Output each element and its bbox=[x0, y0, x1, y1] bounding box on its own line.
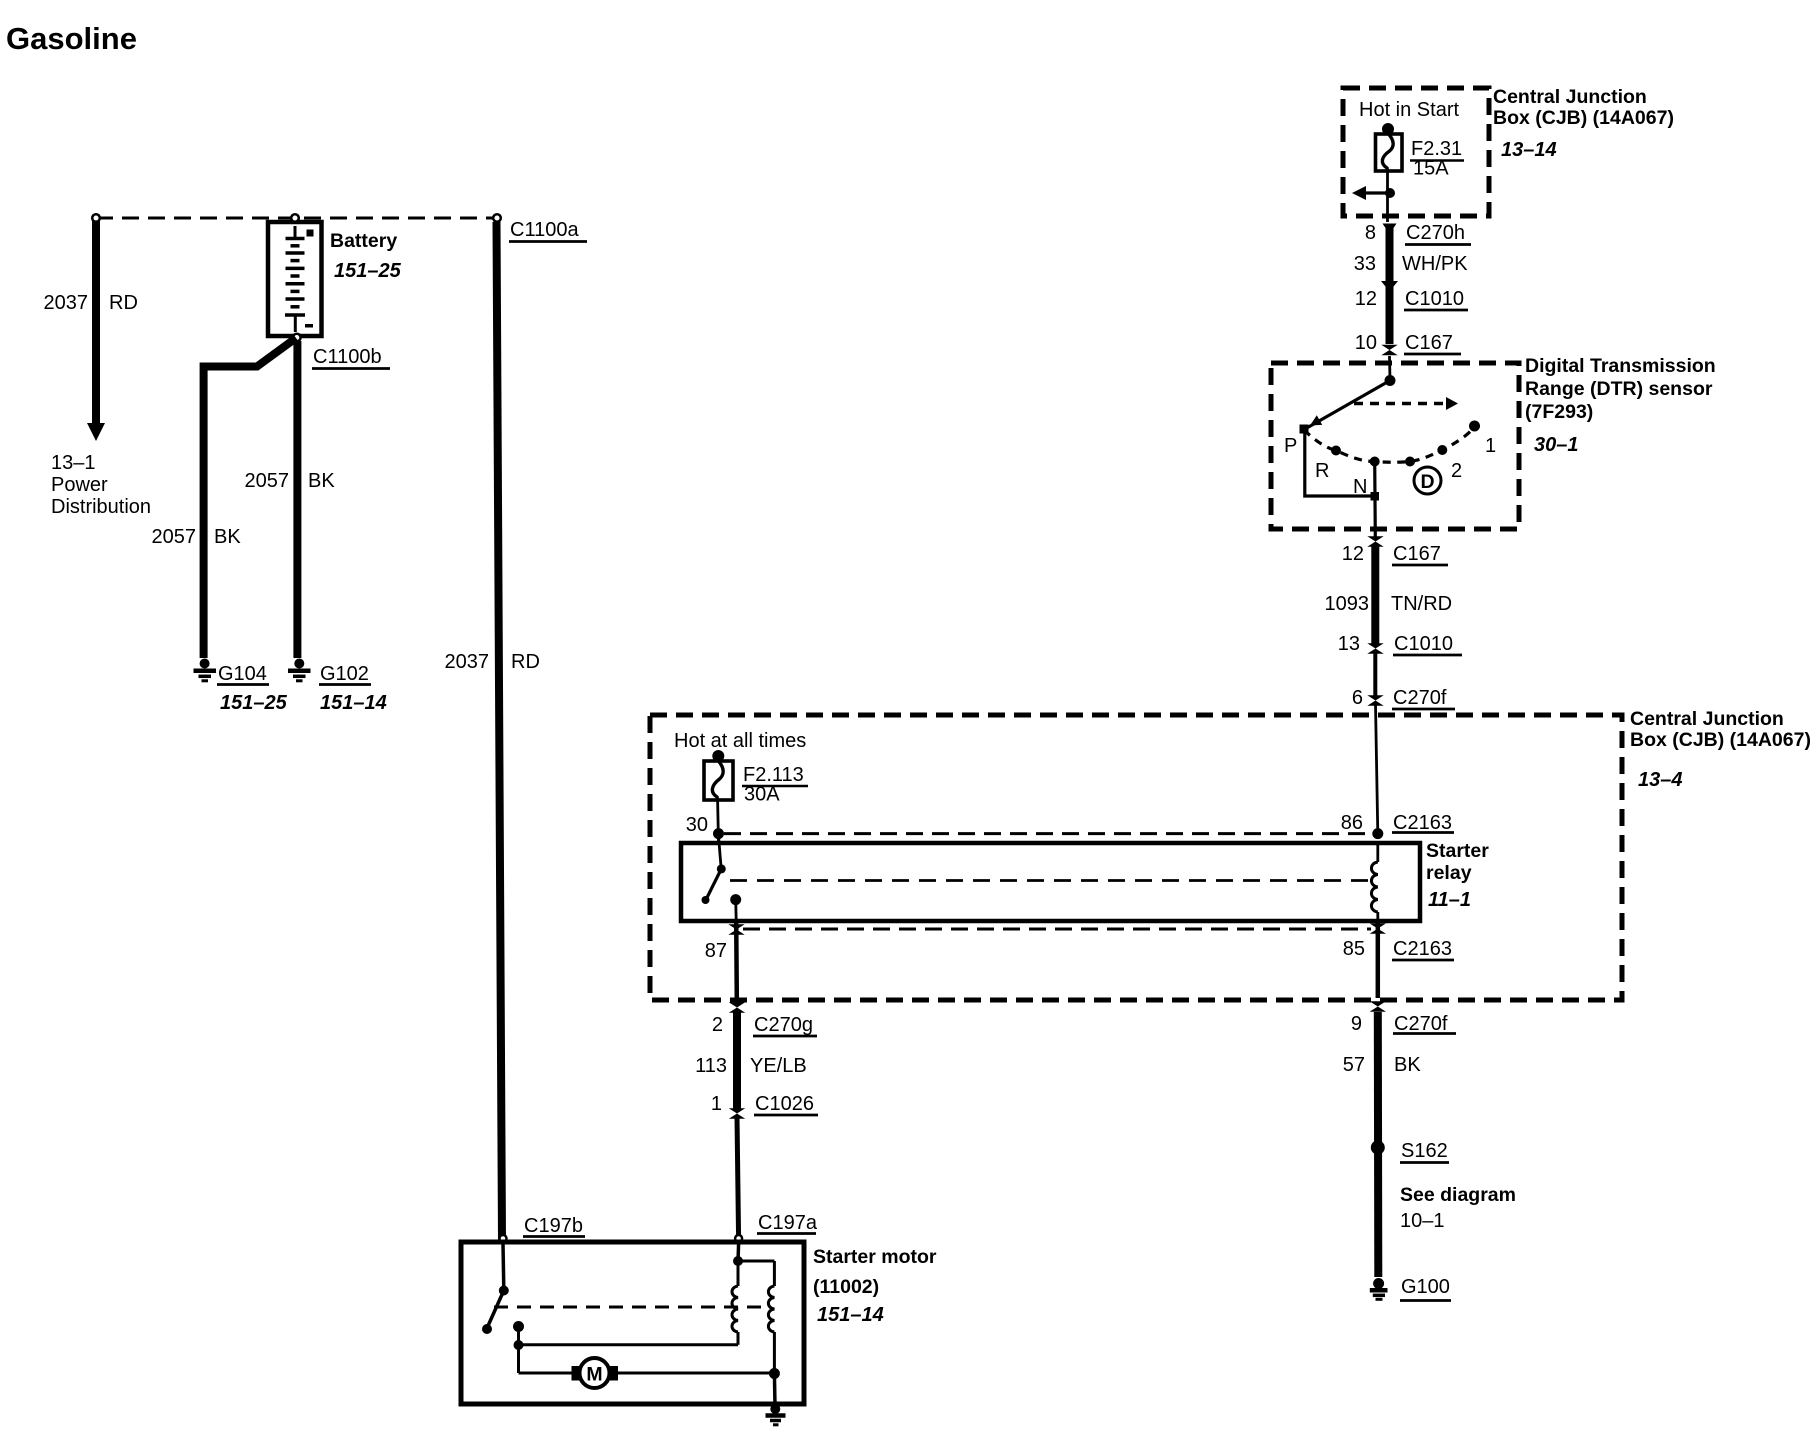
svg-text:33: 33 bbox=[1354, 253, 1376, 275]
ground G100 bbox=[1373, 1278, 1384, 1289]
svg-text:R: R bbox=[1315, 460, 1329, 482]
svg-text:See diagram: See diagram bbox=[1400, 1184, 1516, 1206]
node C197b circle bbox=[500, 1235, 507, 1242]
svg-text:relay: relay bbox=[1426, 862, 1472, 884]
ground G104 bbox=[200, 659, 210, 669]
svg-text:30–1: 30–1 bbox=[1534, 434, 1579, 456]
pin 13 connector C1010 bowtie bbox=[1367, 643, 1383, 653]
svg-text:Central Junction: Central Junction bbox=[1493, 86, 1647, 108]
box starter motor bbox=[461, 1242, 804, 1404]
node circle left bbox=[92, 214, 100, 222]
svg-text:Box (CJB) (14A067): Box (CJB) (14A067) bbox=[1493, 107, 1674, 129]
battery bbox=[268, 222, 322, 336]
wire relay 85 down bbox=[1376, 921, 1381, 998]
box Central Junction Box 13-4 dashed bbox=[650, 715, 1622, 1000]
svg-text:13: 13 bbox=[1338, 633, 1360, 655]
svg-text:C2163: C2163 bbox=[1393, 812, 1452, 834]
svg-text:151–25: 151–25 bbox=[220, 692, 288, 714]
starter switch arm bbox=[488, 1291, 504, 1328]
node C1100b circle bbox=[293, 334, 301, 342]
svg-text:BK: BK bbox=[308, 470, 335, 492]
svg-text:9: 9 bbox=[1351, 1013, 1362, 1035]
svg-text:D: D bbox=[1420, 471, 1434, 493]
node contact R bbox=[1331, 446, 1341, 456]
svg-text:S162: S162 bbox=[1401, 1140, 1448, 1162]
svg-text:C1100a: C1100a bbox=[510, 219, 579, 241]
wire 2037 RD to power distribution (arrow down) bbox=[92, 221, 100, 425]
svg-text:C167: C167 bbox=[1393, 543, 1441, 565]
svg-text:1: 1 bbox=[711, 1093, 722, 1115]
svg-text:30: 30 bbox=[686, 814, 708, 836]
svg-text:C1026: C1026 bbox=[755, 1093, 814, 1115]
wire 113 YE/LB bbox=[733, 1011, 741, 1110]
svg-text:G100: G100 bbox=[1401, 1276, 1450, 1298]
svg-text:Box (CJB) (14A067): Box (CJB) (14A067) bbox=[1630, 729, 1811, 751]
box DTR sensor dashed bbox=[1271, 363, 1519, 529]
wire 33 WH/PK bbox=[1386, 226, 1394, 344]
node junction square bbox=[1371, 492, 1380, 501]
svg-text:2037: 2037 bbox=[44, 292, 89, 314]
svg-text:151–14: 151–14 bbox=[817, 1304, 884, 1326]
svg-text:87: 87 bbox=[705, 940, 727, 962]
svg-text:C270g: C270g bbox=[754, 1014, 813, 1036]
svg-text:Range (DTR) sensor: Range (DTR) sensor bbox=[1525, 378, 1713, 400]
svg-text:10: 10 bbox=[1355, 332, 1377, 354]
svg-text:85: 85 bbox=[1343, 938, 1365, 960]
svg-text:2: 2 bbox=[1451, 460, 1462, 482]
pin 1 connector C1026 bowtie bbox=[729, 1108, 745, 1118]
pin 8 connector C270h arrow bbox=[1383, 224, 1397, 235]
svg-text:C270f: C270f bbox=[1393, 687, 1447, 709]
wire motor ground bbox=[773, 1374, 777, 1407]
wire dashed solenoid link bbox=[494, 1306, 770, 1309]
wire dashed relay link bbox=[730, 879, 1369, 882]
wire into DTR bbox=[1388, 356, 1391, 381]
svg-text:C1010: C1010 bbox=[1394, 633, 1453, 655]
svg-text:86: 86 bbox=[1341, 812, 1363, 834]
svg-text:(11002): (11002) bbox=[813, 1276, 879, 1298]
wire N output bbox=[1373, 462, 1377, 538]
svg-text:C270f: C270f bbox=[1394, 1013, 1448, 1035]
svg-text:57: 57 bbox=[1343, 1054, 1365, 1076]
relay switch pin30 input bbox=[719, 836, 722, 867]
node junction in DTR bbox=[1385, 375, 1396, 386]
svg-text:P: P bbox=[1284, 435, 1297, 457]
wire battery to G104 bbox=[204, 338, 296, 658]
svg-text:C1100b: C1100b bbox=[313, 346, 382, 368]
wire dashed CJB bus 30-86 bbox=[724, 832, 1372, 835]
relay coil bbox=[1376, 843, 1379, 862]
relay switch arm bbox=[706, 869, 721, 900]
wire fuse to relay pin 30 bbox=[716, 800, 720, 843]
svg-text:G102: G102 bbox=[320, 663, 369, 685]
svg-text:RD: RD bbox=[511, 651, 540, 673]
node pin 30 bbox=[713, 828, 724, 839]
wire dashed contact arc bbox=[1304, 427, 1475, 462]
starter switch contact bbox=[513, 1321, 524, 1332]
svg-text:Battery: Battery bbox=[330, 230, 397, 252]
node contact N bbox=[1370, 457, 1380, 467]
fuse F2.113 30A bbox=[712, 750, 724, 762]
pin 9 connector C270f bowtie bbox=[1370, 1001, 1386, 1011]
svg-text:C167: C167 bbox=[1405, 332, 1453, 354]
wire C1026 to starter motor bbox=[737, 1117, 739, 1240]
node splice S162 bbox=[1371, 1141, 1385, 1155]
svg-text:C2163: C2163 bbox=[1393, 938, 1452, 960]
svg-text:13–1: 13–1 bbox=[51, 452, 96, 474]
svg-text:Digital Transmission: Digital Transmission bbox=[1525, 355, 1716, 377]
svg-text:Starter motor: Starter motor bbox=[813, 1246, 937, 1268]
wire coil return bbox=[519, 1343, 739, 1346]
wire relay 87 down bbox=[734, 921, 739, 998]
pin 87 bowtie bbox=[728, 924, 744, 934]
ground starter motor bbox=[770, 1404, 780, 1414]
svg-text:C197b: C197b bbox=[524, 1215, 583, 1237]
svg-text:10–1: 10–1 bbox=[1400, 1210, 1445, 1232]
svg-text:TN/RD: TN/RD bbox=[1391, 593, 1452, 615]
svg-text:2057: 2057 bbox=[152, 526, 197, 548]
node circle battery top bbox=[291, 214, 299, 222]
svg-text:Hot at all times: Hot at all times bbox=[674, 730, 806, 752]
node contact 1 bbox=[1469, 421, 1480, 432]
pin 2 connector C270g bowtie bbox=[729, 1002, 745, 1012]
motor M bbox=[580, 1358, 610, 1388]
svg-text:151–25: 151–25 bbox=[334, 260, 402, 282]
svg-text:Hot in Start: Hot in Start bbox=[1359, 99, 1459, 121]
svg-text:11–1: 11–1 bbox=[1428, 889, 1471, 911]
wire dashed rotation arrow bbox=[1354, 402, 1447, 406]
svg-text:13–4: 13–4 bbox=[1638, 769, 1683, 791]
svg-text:BK: BK bbox=[1394, 1054, 1421, 1076]
svg-text:C197a: C197a bbox=[758, 1212, 818, 1234]
relay starter relay box bbox=[681, 843, 1420, 921]
wire dashed CJB bus 87-85 bbox=[743, 928, 1371, 931]
svg-text:Distribution: Distribution bbox=[51, 496, 151, 518]
fuse F2.31 15A bbox=[1382, 123, 1394, 135]
svg-text:2: 2 bbox=[712, 1014, 723, 1036]
pin 6 connector C270f bowtie bbox=[1367, 695, 1383, 705]
wire selector wiper bbox=[1305, 381, 1390, 430]
svg-text:2037: 2037 bbox=[445, 651, 490, 673]
svg-text:(7F293): (7F293) bbox=[1525, 401, 1593, 423]
svg-text:151–14: 151–14 bbox=[320, 692, 387, 714]
box Hot in Start (CJB 13-14) dashed bbox=[1343, 88, 1489, 216]
svg-text:12: 12 bbox=[1355, 288, 1377, 310]
wire C1010 to C270f bbox=[1373, 652, 1377, 696]
wire P to N leg bbox=[1305, 433, 1375, 496]
pin 12 connector C167 bowtie bbox=[1367, 536, 1383, 546]
wire dashed battery bus (node B+) bbox=[96, 217, 497, 220]
svg-text:WH/PK: WH/PK bbox=[1402, 253, 1468, 275]
svg-text:1093: 1093 bbox=[1325, 593, 1370, 615]
node C1100a circle bbox=[493, 214, 501, 222]
node contact P bbox=[1300, 425, 1309, 434]
svg-text:G104: G104 bbox=[218, 663, 267, 685]
wire motor right bbox=[618, 1372, 774, 1375]
svg-text:YE/LB: YE/LB bbox=[750, 1055, 807, 1077]
starter solenoid input from C197a bbox=[736, 1244, 740, 1261]
wire 2037 RD battery to starter motor bbox=[497, 222, 503, 1240]
wire C270f into CJB bbox=[1376, 704, 1378, 834]
wire arrow to other circuit bbox=[1363, 191, 1390, 194]
svg-text:113: 113 bbox=[695, 1055, 727, 1077]
starter hold-in coil bbox=[773, 1261, 776, 1286]
pin 85 bowtie bbox=[1370, 923, 1386, 933]
wire 57 BK bbox=[1374, 1012, 1383, 1277]
relay switch contact 87 bbox=[730, 894, 741, 905]
svg-text:13–14: 13–14 bbox=[1501, 139, 1557, 161]
label D circled bbox=[1414, 467, 1441, 494]
node C197a circle bbox=[735, 1235, 742, 1242]
pin 10 connector C167 bowtie bbox=[1381, 345, 1397, 355]
svg-text:M: M bbox=[586, 1364, 602, 1386]
svg-text:1: 1 bbox=[1485, 435, 1496, 457]
svg-text:Gasoline: Gasoline bbox=[6, 21, 137, 56]
svg-text:2057: 2057 bbox=[245, 470, 290, 492]
svg-text:30A: 30A bbox=[744, 784, 780, 806]
svg-text:BK: BK bbox=[214, 526, 241, 548]
wire 1093 TN/RD bbox=[1371, 545, 1379, 645]
svg-text:RD: RD bbox=[109, 292, 138, 314]
svg-text:C1010: C1010 bbox=[1405, 288, 1464, 310]
wire battery to G102 bbox=[293, 341, 301, 658]
wire fuse output bbox=[1386, 171, 1389, 222]
ground G102 bbox=[294, 659, 304, 669]
starter solenoid switch input bbox=[501, 1244, 505, 1289]
svg-text:12: 12 bbox=[1342, 543, 1364, 565]
node contact D bbox=[1405, 457, 1415, 467]
svg-text:Starter: Starter bbox=[1426, 840, 1489, 862]
svg-text:6: 6 bbox=[1352, 687, 1363, 709]
starter pull-in coil bbox=[737, 1261, 740, 1286]
svg-text:Central Junction: Central Junction bbox=[1630, 708, 1784, 730]
svg-text:15A: 15A bbox=[1413, 158, 1449, 180]
node pin 86 bbox=[1372, 828, 1383, 839]
svg-text:C270h: C270h bbox=[1406, 222, 1465, 244]
svg-text:Power: Power bbox=[51, 474, 108, 496]
node contact 2 bbox=[1437, 445, 1447, 455]
pin 12 connector C1010 arrow bbox=[1381, 281, 1398, 292]
svg-text:8: 8 bbox=[1365, 222, 1376, 244]
wire motor left bbox=[519, 1372, 572, 1375]
